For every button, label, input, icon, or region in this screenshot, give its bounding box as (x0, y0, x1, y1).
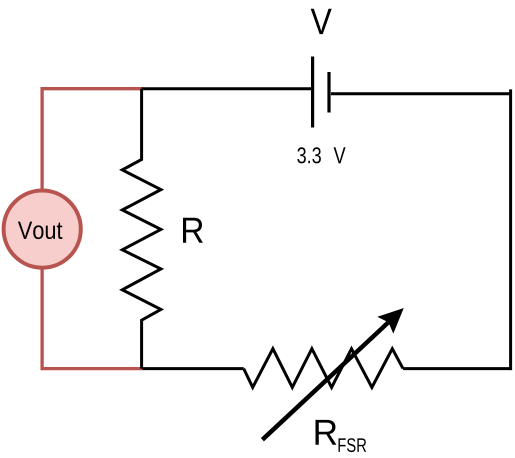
wire red: Vout top branch from node A to circle (42, 89, 143, 190)
battery V positive plate (311, 57, 314, 128)
wire: battery negative to top-right corner (331, 92, 511, 95)
wire: bottom-right from RFSR to right corner (403, 367, 511, 370)
wire: node B to RFSR left lead (143, 367, 244, 370)
label RFSR main R (316, 420, 337, 445)
arrow head (379, 309, 403, 333)
label V unit (battery value) (334, 147, 346, 163)
resistor RFSR zigzag (horizontal) (244, 349, 403, 388)
wire red: Vout bottom branch from circle to node B (42, 269, 142, 369)
wire: right side vertical (509, 89, 512, 370)
battery V negative plate (327, 72, 330, 113)
resistor R zigzag with top lead from node A and bottom lead to node B (122, 89, 161, 369)
label RFSR subscript (339, 438, 367, 452)
node Vout circle (4, 191, 81, 268)
label Vout (18, 222, 63, 240)
label V (battery name) (311, 9, 332, 34)
arrow shaft (variable resistor arrow) (262, 322, 388, 439)
label 3.3 (battery value) (297, 147, 321, 163)
label R (183, 218, 203, 243)
wire: node A to battery positive terminal (142, 87, 313, 90)
